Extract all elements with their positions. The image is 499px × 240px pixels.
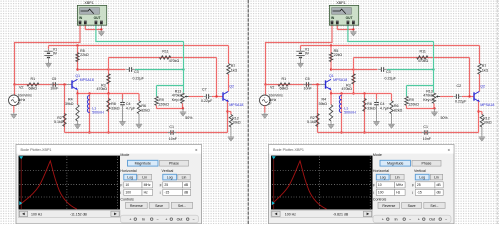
svg-text:39kΩ: 39kΩ [319,102,328,106]
svg-text:R7: R7 [231,64,236,68]
svg-text:I: I [373,191,374,195]
svg-text:33kΩ: 33kΩ [111,106,120,110]
svg-text:Bode Plotter-XBP1: Bode Plotter-XBP1 [273,148,304,152]
svg-text:10kΩ: 10kΩ [483,121,492,125]
svg-text:C5: C5 [305,77,310,81]
svg-text:10nF: 10nF [304,87,313,91]
svg-text:68kΩ: 68kΩ [280,87,289,91]
svg-text:R1: R1 [282,77,287,81]
svg-text:C1: C1 [423,125,428,129]
svg-text:4.7µF: 4.7µF [126,106,136,110]
svg-text:100: 100 [378,191,384,195]
svg-text:50%: 50% [185,116,193,120]
svg-text:5.1kΩ: 5.1kΩ [307,120,317,124]
svg-text:Reverse: Reverse [130,204,143,208]
svg-text:0.22µF: 0.22µF [133,77,145,81]
svg-text:R6: R6 [394,104,399,108]
svg-text:Save: Save [155,204,163,208]
svg-text:470kΩ: 470kΩ [169,59,180,63]
svg-text:10mVrms: 10mVrms [18,93,33,97]
svg-text:1kΩ: 1kΩ [482,68,489,72]
svg-text:68kΩ: 68kΩ [29,87,38,91]
svg-text:R11: R11 [420,50,426,54]
svg-text:82kΩ: 82kΩ [394,109,403,113]
svg-text:Key=A: Key=A [423,98,434,102]
svg-text:Lin: Lin [142,175,147,179]
svg-text:100 Hz: 100 Hz [31,213,42,217]
svg-text:R12: R12 [232,116,239,120]
svg-text:10nF: 10nF [169,137,178,141]
svg-text:Lin: Lin [395,175,400,179]
svg-text:25: 25 [417,183,421,187]
svg-text:C5: C5 [52,77,57,81]
svg-text:Q2: Q2 [229,85,234,89]
svg-text:R9: R9 [409,98,414,102]
svg-text:0.22µF: 0.22µF [201,99,213,103]
svg-text:Log: Log [380,175,386,179]
svg-text:Key=A: Key=A [172,98,183,102]
svg-text:500mH: 500mH [92,111,104,115]
svg-text:25: 25 [164,183,168,187]
svg-text:In: In [142,218,145,222]
svg-text:OUT: OUT [346,16,353,20]
svg-text:-11.152 dB: -11.152 dB [70,213,88,217]
svg-text:C1: C1 [169,125,174,129]
svg-text:R11: R11 [162,50,168,54]
svg-text:33kΩ: 33kΩ [367,106,376,110]
svg-text:100: 100 [125,191,131,195]
svg-text:Horizontal: Horizontal [120,169,136,173]
svg-text:F: F [412,184,414,188]
svg-text:R2: R2 [57,116,62,120]
svg-text:39kΩ: 39kΩ [65,102,74,106]
svg-text:120kΩ: 120kΩ [408,102,419,106]
svg-text:In: In [395,218,398,222]
svg-text:10mVrms: 10mVrms [269,93,284,97]
svg-text:V2: V2 [19,85,23,89]
svg-text:120kΩ: 120kΩ [158,102,169,106]
svg-text:1kHz: 1kHz [269,98,277,102]
svg-text:R8: R8 [111,102,116,106]
svg-text:Log: Log [419,175,425,179]
svg-text:F: F [373,184,375,188]
svg-text:V2: V2 [270,85,274,89]
svg-text:10nF: 10nF [50,87,59,91]
svg-text:Log: Log [127,175,133,179]
svg-text:MPSA18: MPSA18 [480,103,494,107]
svg-text:Phase: Phase [169,162,179,166]
svg-text:-15: -15 [164,191,169,195]
svg-text:C3: C3 [386,70,391,74]
svg-text:100 Hz: 100 Hz [285,213,296,217]
svg-text:470kΩ: 470kΩ [342,87,353,91]
svg-text:500mH: 500mH [344,111,356,115]
svg-text:0.22µF: 0.22µF [385,77,397,81]
svg-text:F: F [120,184,122,188]
svg-text:R9: R9 [159,98,164,102]
svg-text:I: I [120,191,121,195]
svg-text:22kΩ: 22kΩ [80,53,89,57]
svg-text:470kΩ: 470kΩ [418,59,429,63]
svg-text:Q2: Q2 [480,85,485,89]
svg-text:Lin: Lin [182,175,187,179]
svg-text:Set...: Set... [430,204,438,208]
svg-text:Mode: Mode [120,153,129,157]
svg-text:Controls: Controls [120,197,134,201]
svg-text:50%: 50% [441,116,449,120]
svg-text:R6: R6 [141,104,146,108]
svg-text:Bode Plotter-XBP1: Bode Plotter-XBP1 [21,148,52,152]
svg-text:OUT: OUT [94,16,101,20]
svg-text:470kΩ: 470kΩ [97,87,108,91]
svg-text:×: × [448,147,451,152]
svg-text:Log: Log [167,175,173,179]
svg-text:10nF: 10nF [423,137,432,141]
svg-text:10: 10 [378,183,382,187]
svg-text:XBP1: XBP1 [336,1,345,5]
svg-text:Lin: Lin [434,175,439,179]
svg-text:Magnitude: Magnitude [135,162,151,166]
svg-text:Out: Out [429,218,435,222]
svg-text:82kΩ: 82kΩ [141,109,150,113]
svg-text:0.22µF: 0.22µF [455,100,467,104]
svg-text:I: I [412,191,413,195]
svg-text:Out: Out [177,218,183,222]
svg-text:C2: C2 [457,84,462,88]
svg-text:×: × [195,147,198,152]
svg-text:I: I [160,191,161,195]
svg-text:L1: L1 [92,106,96,110]
svg-text:dB: dB [184,183,189,187]
svg-text:Reverse: Reverse [382,204,395,208]
svg-text:-15: -15 [417,191,422,195]
svg-text:1kHz: 1kHz [18,98,26,102]
svg-text:C4: C4 [126,102,131,106]
svg-text:Set...: Set... [178,204,186,208]
svg-text:R8: R8 [367,102,372,106]
svg-text:dB: dB [437,183,442,187]
svg-text:R4: R4 [68,98,73,102]
svg-text:R5: R5 [334,49,339,53]
svg-text:L1: L1 [344,106,348,110]
svg-text:Controls: Controls [373,197,387,201]
svg-text:Mode: Mode [373,153,382,157]
svg-text:10kΩ: 10kΩ [232,121,241,125]
svg-text:MHz: MHz [144,183,151,187]
svg-text:Hz: Hz [396,191,400,195]
svg-text:dB: dB [184,191,189,195]
svg-text:5.1kΩ: 5.1kΩ [54,120,64,124]
svg-text:10: 10 [125,183,129,187]
svg-text:Horizontal: Horizontal [373,169,389,173]
svg-text:MHz: MHz [396,183,403,187]
svg-text:MPSA18: MPSA18 [333,78,347,82]
svg-text:R2: R2 [310,116,315,120]
svg-text:R4: R4 [322,98,327,102]
svg-text:Save: Save [408,204,416,208]
svg-text:4.7µF: 4.7µF [380,106,390,110]
svg-text:Phase: Phase [422,162,432,166]
svg-text:R5: R5 [80,49,85,53]
svg-text:R7: R7 [482,64,487,68]
svg-text:C3: C3 [134,70,139,74]
svg-text:1kΩ: 1kΩ [231,68,238,72]
svg-text:22kΩ: 22kΩ [334,53,343,57]
svg-text:-9.821 dB: -9.821 dB [333,213,349,217]
svg-text:Hz: Hz [144,191,148,195]
svg-text:MPSA18: MPSA18 [80,78,94,82]
svg-text:9V: 9V [305,52,310,56]
svg-text:C7: C7 [202,88,207,92]
svg-text:MPSA18: MPSA18 [229,103,243,107]
svg-text:F: F [160,184,162,188]
svg-text:R12: R12 [483,116,490,120]
svg-text:Magnitude: Magnitude [387,162,403,166]
svg-text:XBP1: XBP1 [84,1,93,5]
svg-text:dB: dB [437,191,442,195]
svg-text:R1: R1 [31,77,36,81]
svg-text:Vertical: Vertical [162,169,174,173]
svg-text:Vertical: Vertical [414,169,426,173]
svg-text:9V: 9V [53,52,58,56]
svg-text:C4: C4 [380,102,385,106]
